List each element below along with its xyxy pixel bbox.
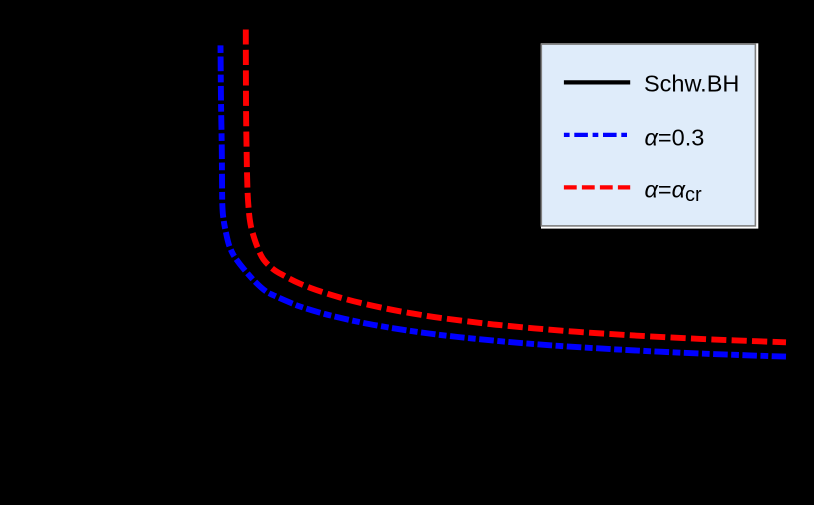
curve alpha=0.3 (blue long-short dashed): [221, 45, 787, 356]
legend box: [541, 44, 755, 226]
legend box white shadow edge: [541, 43, 758, 228]
svg-text:Schw.BH: Schw.BH: [644, 71, 739, 97]
legend sample: Schw.BH black line: [564, 80, 630, 84]
legend sample: blue dashed line: [564, 133, 628, 137]
legend sample: red dashed line: [564, 185, 630, 189]
curve alpha=alpha_cr (red dashed): [246, 30, 786, 343]
svg-text:α=0.3: α=0.3: [645, 124, 705, 150]
